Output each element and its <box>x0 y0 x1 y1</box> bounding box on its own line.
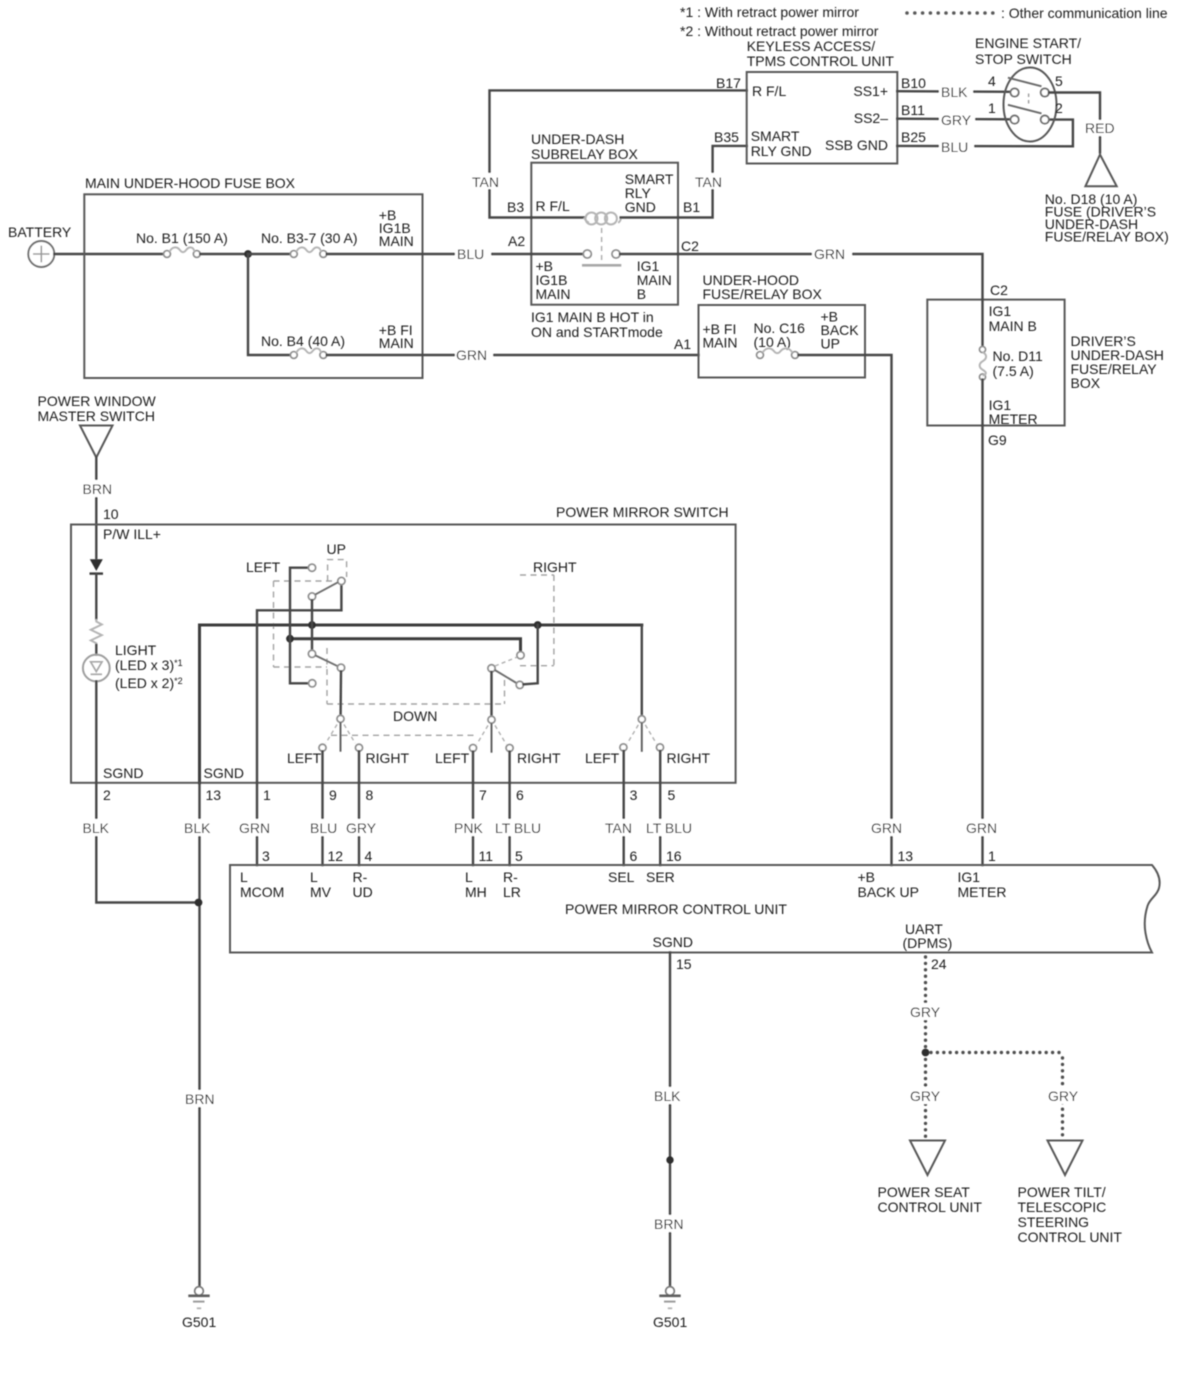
svg-text:R F/L: R F/L <box>752 83 786 99</box>
wire pin 3 <box>623 751 625 783</box>
wire GRN C2 to driver's box <box>678 254 983 300</box>
wire GRN G9 down to control unit IG1 METER <box>981 426 983 866</box>
label POWER SEAT CONTROL UNIT <box>878 1184 983 1215</box>
label UART (DPMS) <box>903 921 953 951</box>
dashed coupling UP box <box>328 560 347 581</box>
note IG1 MAIN B HOT <box>531 309 663 340</box>
KEYLESS ACCESS/TPMS CONTROL UNIT <box>747 38 898 164</box>
label L MCOM <box>240 869 284 900</box>
label GRY <box>908 1003 945 1020</box>
svg-text:B3: B3 <box>507 199 524 215</box>
svg-text:RIGHT: RIGHT <box>533 559 577 575</box>
svg-text:CONTROL UNIT: CONTROL UNIT <box>1018 1229 1123 1245</box>
label IG1 MAIN B <box>637 258 672 302</box>
svg-text:BACK UP: BACK UP <box>858 884 919 900</box>
label +B BACK UP <box>858 869 919 900</box>
svg-text:No. B3-7 (30 A): No. B3-7 (30 A) <box>261 230 358 246</box>
wire light to SGND pin 2 <box>95 681 97 782</box>
label GRY <box>1046 1087 1083 1104</box>
label R-UD <box>353 869 373 900</box>
svg-text:POWER SEAT: POWER SEAT <box>878 1184 971 1200</box>
label TAN <box>471 173 508 190</box>
svg-text:No. D11: No. D11 <box>993 348 1044 364</box>
right rocker: feed contact <box>517 652 524 659</box>
svg-text:GRN: GRN <box>966 820 997 836</box>
wire TAN subrelay B1 to keyless B35 <box>678 146 747 218</box>
svg-text:R-: R- <box>353 869 368 885</box>
wire bus1 to right selector <box>641 625 643 716</box>
fuse C16 (10 A) <box>754 320 806 358</box>
wire GRN pin1 to LMCOM <box>256 783 258 865</box>
wire BLK/BRN pin13 to G501 <box>198 783 200 1288</box>
wire GRN from B4 to under-hood box A1 <box>327 354 699 356</box>
ENGINE START/STOP SWITCH <box>975 35 1081 142</box>
wire pin 5 <box>659 751 661 783</box>
svg-text:TAN: TAN <box>695 174 722 190</box>
svg-text:GRY: GRY <box>1048 1088 1079 1104</box>
label GRN <box>869 819 909 836</box>
label R-LR <box>503 869 521 900</box>
POWER WINDOW MASTER SWITCH connector <box>38 393 157 458</box>
svg-text:MV: MV <box>310 884 332 900</box>
svg-text:G501: G501 <box>182 1314 216 1330</box>
svg-text:B: B <box>637 286 646 302</box>
svg-text:5: 5 <box>1055 73 1063 89</box>
wire diode to resistor <box>95 574 97 619</box>
wire BLU SSB GND loop to switch pin 2 <box>897 120 1073 147</box>
svg-text:ENGINE START/: ENGINE START/ <box>975 35 1081 51</box>
svg-text:IG1: IG1 <box>958 869 981 885</box>
wire LT BLU pin6 to R-LR <box>508 783 510 865</box>
left rocker DOWN: fixed contact <box>309 680 316 687</box>
svg-text:L: L <box>465 869 473 885</box>
svg-text:C2: C2 <box>990 282 1008 298</box>
svg-text:BRN: BRN <box>83 481 113 497</box>
svg-text:LEFT: LEFT <box>435 750 470 766</box>
svg-text:FUSE/RELAY BOX): FUSE/RELAY BOX) <box>1045 229 1169 245</box>
svg-text:6: 6 <box>516 787 524 803</box>
node bus1-left-pivot <box>308 621 316 629</box>
svg-text:9: 9 <box>329 787 337 803</box>
svg-text:1: 1 <box>988 100 996 116</box>
svg-text:SSB GND: SSB GND <box>825 137 888 153</box>
svg-text:LEFT: LEFT <box>585 750 620 766</box>
POWER MIRROR SWITCH box <box>71 504 736 783</box>
wire PNK pin7 to LMH <box>472 783 474 865</box>
wire RED pin5 to fuse D18 <box>1049 93 1100 153</box>
svg-text:GRY: GRY <box>910 1004 941 1020</box>
right selector LEFT contact <box>620 744 627 751</box>
svg-text:*1 : With retract power mirror: *1 : With retract power mirror <box>680 4 859 20</box>
svg-text:MH: MH <box>465 884 487 900</box>
svg-text:GRN: GRN <box>456 347 487 363</box>
svg-text:No. B4 (40 A): No. B4 (40 A) <box>261 333 345 349</box>
svg-text:FUSE/RELAY BOX: FUSE/RELAY BOX <box>703 286 823 302</box>
wire BLU from B3-7 to subrelay A2 <box>327 253 532 255</box>
label +B FI MAIN <box>703 321 738 351</box>
svg-text:SGND: SGND <box>653 934 693 950</box>
label GRN <box>455 346 493 363</box>
label BRN <box>183 1090 219 1107</box>
wire pin 6 <box>508 752 510 783</box>
wire TAN from keyless B17 to subrelay B3 <box>490 90 747 217</box>
label TAN <box>694 173 731 190</box>
wire GRY SS2- to switch pin 1 <box>897 117 1010 120</box>
dotted wire GRY branch to tilt/telescopic <box>929 1051 1064 1137</box>
svg-text:2: 2 <box>103 787 111 803</box>
node bus1-middle <box>534 621 542 629</box>
wire BLK/BRN SGND to G501 <box>669 953 671 1288</box>
dotted wire GRY UART to power seat <box>924 955 927 1138</box>
wire TAN pin3 to SEL <box>623 783 625 865</box>
svg-text:15: 15 <box>676 956 692 972</box>
svg-text:METER: METER <box>958 884 1007 900</box>
svg-text:3: 3 <box>630 787 638 803</box>
svg-text:4: 4 <box>365 848 373 864</box>
+B FI MAIN label <box>379 322 414 351</box>
svg-text:SUBRELAY BOX: SUBRELAY BOX <box>531 146 639 162</box>
wire pin 9 <box>321 751 323 783</box>
svg-text:13: 13 <box>206 787 222 803</box>
dashed coupling left rocker box <box>274 581 337 704</box>
diode <box>90 559 104 573</box>
wire battery to fuse B1 <box>54 253 163 255</box>
svg-text:SMART: SMART <box>751 128 800 144</box>
svg-text:BLK: BLK <box>184 820 211 836</box>
svg-text:B10: B10 <box>901 75 926 91</box>
svg-text:GRY: GRY <box>346 820 377 836</box>
label GRN <box>964 819 1004 836</box>
svg-text:SS2–: SS2– <box>854 110 888 126</box>
svg-text:POWER WINDOW: POWER WINDOW <box>38 393 157 409</box>
label IG1 MAIN B <box>989 303 1037 334</box>
svg-text:BLK: BLK <box>654 1088 681 1104</box>
left rocker UP: output contact <box>338 577 345 584</box>
svg-text:BLU: BLU <box>941 139 968 155</box>
splice node <box>666 1156 673 1163</box>
relay contact (A2 to C2) <box>531 228 678 265</box>
svg-text:TAN: TAN <box>605 820 632 836</box>
left selector RIGHT contact <box>356 744 363 751</box>
label BLK <box>652 1087 686 1104</box>
wire LMCOM from up-right contact to pin 1 <box>257 585 341 783</box>
svg-text:UD: UD <box>353 884 373 900</box>
svg-text:5: 5 <box>668 787 676 803</box>
label GRN <box>812 245 852 262</box>
svg-text:GRY: GRY <box>941 112 972 128</box>
svg-text:13: 13 <box>898 848 914 864</box>
fuse B1 (150 A) <box>136 230 228 257</box>
resistor <box>91 619 102 645</box>
connector triangle to power seat control unit <box>910 1141 945 1176</box>
wire LT BLU pin5 to SER <box>659 783 661 865</box>
fuse B4 (40 A) <box>261 333 345 358</box>
svg-text:B25: B25 <box>901 129 926 145</box>
svg-text:BRN: BRN <box>654 1216 684 1232</box>
label No. D18 fuse <box>1045 191 1169 245</box>
label BRN <box>80 480 117 497</box>
wire left contacts vertical <box>290 568 309 684</box>
svg-text:CONTROL UNIT: CONTROL UNIT <box>878 1199 983 1215</box>
middle selector LEFT contact <box>470 745 477 752</box>
svg-text:+B: +B <box>858 869 876 885</box>
svg-text:B35: B35 <box>714 129 739 145</box>
svg-text:BLK: BLK <box>83 820 110 836</box>
wire junction down to B4 row <box>248 254 290 355</box>
ground G501 (left) <box>182 1287 216 1330</box>
svg-text:SGND: SGND <box>103 765 143 781</box>
svg-text:A2: A2 <box>508 233 525 249</box>
svg-text:LEFT: LEFT <box>246 559 281 575</box>
splice node UART branch <box>922 1049 930 1057</box>
dashed coupling right rocker box <box>520 575 554 666</box>
left rocker UP: fixed contact <box>308 564 315 571</box>
svg-text:MAIN: MAIN <box>379 335 414 351</box>
svg-text:B1: B1 <box>683 199 700 215</box>
svg-text:R-: R- <box>503 869 518 885</box>
wire junction to fuse B3-7 <box>248 253 290 255</box>
ground G501 (middle) <box>653 1287 687 1330</box>
svg-text:SGND: SGND <box>204 765 244 781</box>
left rocker UP: pivot and arm <box>308 582 338 600</box>
svg-text:BLK: BLK <box>941 84 968 100</box>
UNDER-DASH SUBRELAY BOX <box>531 131 678 305</box>
svg-text:No. B1 (150 A): No. B1 (150 A) <box>136 230 228 246</box>
svg-text:POWER MIRROR SWITCH: POWER MIRROR SWITCH <box>556 504 729 520</box>
svg-text:UP: UP <box>821 336 840 352</box>
DRIVER'S UNDER-DASH FUSE/RELAY BOX <box>927 300 1164 426</box>
svg-text:TAN: TAN <box>472 174 499 190</box>
light LED <box>83 642 183 691</box>
wire B1 to junction <box>200 253 248 255</box>
wire down contact to bus1 node <box>523 625 537 684</box>
svg-text:IG1 MAIN B HOT in: IG1 MAIN B HOT in <box>531 309 654 325</box>
svg-text:BLU: BLU <box>457 246 484 262</box>
svg-text:BOX: BOX <box>1071 375 1101 391</box>
svg-text:3: 3 <box>262 848 270 864</box>
bus link <box>290 639 521 652</box>
label SMART RLY GND <box>751 128 812 159</box>
svg-text:11: 11 <box>479 848 494 864</box>
svg-text:MASTER SWITCH: MASTER SWITCH <box>38 408 155 424</box>
UNDER-HOOD FUSE/RELAY BOX <box>699 272 866 378</box>
label IG1 METER <box>958 869 1007 900</box>
svg-text:7: 7 <box>479 787 487 803</box>
svg-text:SEL: SEL <box>608 869 635 885</box>
label +B BACK UP <box>821 309 860 352</box>
svg-text:12: 12 <box>328 848 344 864</box>
label SMART RLY GND <box>625 171 674 215</box>
label L MH <box>465 869 487 900</box>
svg-text:16: 16 <box>666 848 682 864</box>
left selector LEFT contact <box>319 744 326 751</box>
right selector RIGHT contact <box>657 744 664 751</box>
svg-text:STEERING: STEERING <box>1018 1214 1090 1230</box>
wire BLU pin9 to LMV <box>321 783 323 865</box>
svg-text:RLY GND: RLY GND <box>751 143 812 159</box>
svg-text:LT BLU: LT BLU <box>646 820 692 836</box>
POWER MIRROR CONTROL UNIT box <box>230 865 1160 953</box>
label IG1 METER <box>989 397 1038 427</box>
wire pin 7 <box>472 752 474 783</box>
left rocker DOWN: output contact <box>337 664 344 671</box>
label BRN <box>652 1215 688 1232</box>
svg-text:METER: METER <box>989 411 1038 427</box>
svg-text:10: 10 <box>103 506 119 522</box>
MAIN UNDER-HOOD FUSE BOX <box>84 175 422 378</box>
svg-text:DOWN: DOWN <box>393 708 437 724</box>
switch contact pins 1-2 <box>1008 105 1049 124</box>
label POWER TILT/TELESCOPIC STEERING CONTROL UNIT <box>1018 1184 1123 1245</box>
left rocker DOWN: pivot and arm <box>308 650 337 666</box>
junction node <box>244 250 252 258</box>
middle selector RIGHT contact <box>506 745 513 752</box>
wire GRN C16 to control unit +B BACK UP <box>798 355 891 865</box>
svg-text:POWER TILT/: POWER TILT/ <box>1018 1184 1106 1200</box>
svg-text:GRY: GRY <box>910 1088 941 1104</box>
svg-text:(DPMS): (DPMS) <box>903 935 953 951</box>
svg-text:B11: B11 <box>901 102 925 118</box>
svg-text:LIGHT: LIGHT <box>115 642 157 658</box>
svg-text:8: 8 <box>366 787 374 803</box>
node pin2/pin13 junction <box>195 899 203 907</box>
label BLK <box>182 819 216 836</box>
svg-text:R F/L: R F/L <box>536 198 570 214</box>
label BLK <box>80 819 114 836</box>
battery <box>8 224 72 267</box>
svg-text:A1: A1 <box>674 336 691 352</box>
svg-text:KEYLESS ACCESS/: KEYLESS ACCESS/ <box>747 38 876 54</box>
svg-text:4: 4 <box>988 73 996 89</box>
svg-text:SER: SER <box>646 869 675 885</box>
svg-text:L: L <box>240 869 248 885</box>
right selector moving contact <box>627 716 656 752</box>
wire GRY pin8 to R-UD <box>358 783 360 865</box>
svg-text:L: L <box>310 869 318 885</box>
svg-text:BRN: BRN <box>185 1091 215 1107</box>
label GRY <box>908 1087 945 1104</box>
dashed coupling selector row <box>327 680 505 735</box>
svg-text:(LED x 2)*2: (LED x 2)*2 <box>115 675 183 691</box>
wire BRN to mirror switch pin 10 <box>95 458 97 559</box>
svg-text:*2 : Without retract power mir: *2 : Without retract power mirror <box>680 23 879 39</box>
svg-text:GND: GND <box>625 199 656 215</box>
svg-text:1: 1 <box>988 848 996 864</box>
fuse B3-7 (30 A) <box>261 230 358 257</box>
svg-text:MAIN B: MAIN B <box>989 318 1037 334</box>
right rocker: pivot and arm <box>488 657 517 683</box>
svg-text:2: 2 <box>1055 100 1063 116</box>
relay coil <box>531 213 678 225</box>
label BLU <box>455 245 491 262</box>
svg-text:MAIN: MAIN <box>379 233 414 249</box>
svg-text:RIGHT: RIGHT <box>667 750 711 766</box>
connector triangle to power tilt/telescopic <box>1048 1141 1083 1176</box>
svg-text:1: 1 <box>263 787 271 803</box>
wire pivot to bus1 and to down pivot <box>311 600 313 650</box>
legend dotted other-communication-line sample <box>905 11 994 15</box>
mechanical link dashes <box>1028 94 1030 107</box>
svg-text:LR: LR <box>503 884 521 900</box>
right rocker: down contact <box>516 681 523 688</box>
svg-text:B17: B17 <box>716 75 741 91</box>
wire pivot to middle selector <box>490 672 492 716</box>
bus SGND (pin13) <box>200 625 642 783</box>
svg-text:LT BLU: LT BLU <box>495 820 541 836</box>
svg-text:UNDER-DASH: UNDER-DASH <box>531 131 624 147</box>
wire resistor to light <box>95 645 97 655</box>
label L MV <box>310 869 332 900</box>
wire BLK SS1+ to switch pin 4 <box>897 90 1010 93</box>
svg-text:SS1+: SS1+ <box>853 83 888 99</box>
svg-text:MCOM: MCOM <box>240 884 284 900</box>
svg-text:MAIN: MAIN <box>536 286 571 302</box>
svg-text:: Other communication line: : Other communication line <box>1001 5 1168 21</box>
svg-text:RED: RED <box>1085 120 1115 136</box>
svg-text:RIGHT: RIGHT <box>366 750 410 766</box>
svg-text:UP: UP <box>327 541 346 557</box>
svg-text:(LED x 3)*1: (LED x 3)*1 <box>115 657 183 673</box>
svg-text:G501: G501 <box>653 1314 687 1330</box>
svg-text:ON and STARTmode: ON and STARTmode <box>531 324 663 340</box>
svg-text:C2: C2 <box>681 238 699 254</box>
svg-text:IG1: IG1 <box>989 303 1012 319</box>
middle selector moving contact <box>477 716 506 753</box>
svg-text:6: 6 <box>630 848 638 864</box>
label RED <box>1083 120 1117 136</box>
svg-text:BLU: BLU <box>310 820 337 836</box>
switch contact pins 4-5 <box>1008 78 1049 97</box>
left selector moving contact <box>326 715 355 751</box>
label +B IG1B MAIN <box>536 258 571 302</box>
svg-text:BATTERY: BATTERY <box>8 224 72 240</box>
svg-text:GRN: GRN <box>814 246 845 262</box>
connector triangle fuse D18 <box>1085 155 1116 187</box>
svg-text:RIGHT: RIGHT <box>517 750 561 766</box>
svg-text:P/W ILL+: P/W ILL+ <box>103 526 161 542</box>
svg-text:LEFT: LEFT <box>287 750 322 766</box>
wire fuse D11 to box bottom <box>981 380 983 426</box>
svg-text:5: 5 <box>515 848 523 864</box>
node bus2-left <box>286 635 294 643</box>
svg-text:MAIN: MAIN <box>703 335 738 351</box>
svg-text:PNK: PNK <box>454 820 483 836</box>
svg-text:TELESCOPIC: TELESCOPIC <box>1018 1199 1107 1215</box>
wire pin 8 <box>358 751 360 783</box>
svg-text:(7.5 A): (7.5 A) <box>993 363 1034 379</box>
fuse No. D11 (7.5 A) <box>980 347 1044 381</box>
svg-text:MAIN UNDER-HOOD FUSE BOX: MAIN UNDER-HOOD FUSE BOX <box>85 175 296 191</box>
svg-text:POWER MIRROR CONTROL UNIT: POWER MIRROR CONTROL UNIT <box>565 901 787 917</box>
+B IG1B MAIN label <box>379 207 414 249</box>
svg-text:G9: G9 <box>988 432 1007 448</box>
svg-text:GRN: GRN <box>871 820 902 836</box>
wire down contact to left selector <box>339 671 342 715</box>
svg-text:TPMS CONTROL UNIT: TPMS CONTROL UNIT <box>747 53 895 69</box>
svg-text:24: 24 <box>931 956 947 972</box>
svg-text:GRN: GRN <box>239 820 270 836</box>
svg-text:STOP SWITCH: STOP SWITCH <box>975 51 1072 67</box>
wire inside box to fuse D11 <box>981 300 983 347</box>
wire BLK pin2 to junction <box>96 783 198 903</box>
